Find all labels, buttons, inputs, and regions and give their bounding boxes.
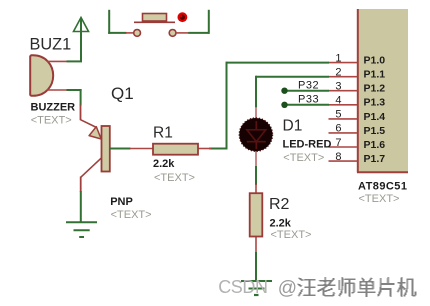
svg-text:P32: P32 — [298, 79, 319, 91]
svg-text:CSDN: CSDN — [218, 277, 267, 297]
svg-text:P1.3: P1.3 — [364, 97, 386, 109]
wire: R1 right to corner — [209, 148, 228, 150]
svg-text:P1.6: P1.6 — [364, 139, 386, 151]
push button contact line — [134, 21, 175, 23]
svg-text:P1.0: P1.0 — [364, 55, 386, 67]
svg-text:3: 3 — [335, 81, 341, 93]
junction dot P33 — [281, 102, 287, 108]
svg-text:6: 6 — [335, 123, 341, 135]
transistor Q1 emitter wire — [81, 105, 97, 128]
wire: pin4 P33 stub — [285, 104, 330, 106]
transistor Q1 collector wire — [81, 158, 102, 192]
button red indicator dot — [178, 12, 188, 22]
push button left pin stub — [126, 32, 134, 34]
pin 7 stub — [329, 146, 358, 148]
push button right pin stub — [176, 32, 189, 34]
svg-text:P33: P33 — [298, 94, 319, 106]
svg-text:4: 4 — [335, 95, 341, 107]
svg-text:<TEXT>: <TEXT> — [111, 209, 152, 221]
ground symbol right — [241, 281, 272, 295]
svg-text:P1.2: P1.2 — [364, 83, 386, 95]
pin 8 stub — [329, 160, 358, 162]
pin 5 stub — [329, 118, 358, 120]
ground symbol left — [66, 222, 97, 237]
chip U1 AT89C51 body — [357, 9, 408, 173]
svg-text:7: 7 — [335, 137, 341, 149]
wire: buzzer top to power — [67, 60, 83, 62]
svg-text:2: 2 — [335, 67, 341, 79]
transistor Q1 emitter arrowhead — [89, 127, 101, 139]
pin 3 stub — [329, 90, 358, 92]
pin 2 stub — [329, 76, 358, 78]
svg-text:<TEXT>: <TEXT> — [271, 229, 312, 241]
svg-text:R1: R1 — [153, 124, 173, 141]
svg-text:1: 1 — [335, 52, 341, 64]
wire: pin2 horizontal — [256, 76, 329, 78]
svg-text:@: @ — [278, 278, 297, 299]
svg-text:P1.5: P1.5 — [364, 125, 386, 137]
wire: pin3 P32 stub — [285, 90, 330, 92]
watermark chinese text 汪老师单片机 (pre-rasterized) — [298, 277, 417, 297]
svg-text:8: 8 — [335, 151, 341, 163]
wire: pin2 vertical down to D1 — [255, 76, 257, 108]
buzzer bottom pin stub — [47, 89, 67, 91]
svg-text:BUZ1: BUZ1 — [30, 35, 72, 53]
push button actuator bar — [143, 14, 167, 22]
push button left terminal — [134, 30, 141, 37]
resistor R2 top stub — [255, 184, 257, 194]
push button frame right wire — [188, 10, 209, 34]
transistor Q1 base bar — [102, 126, 110, 172]
resistor R2 bottom stub — [255, 237, 257, 253]
svg-text:2.2k: 2.2k — [153, 158, 175, 170]
svg-text:BUZZER: BUZZER — [31, 102, 76, 114]
junction dot P32 — [281, 88, 287, 94]
resistor R1 left stub — [130, 148, 153, 150]
LED D1 top pin stub — [255, 107, 257, 122]
pin 4 stub — [329, 104, 358, 106]
resistor R1 body — [153, 144, 198, 155]
pin 1 stub — [329, 62, 358, 64]
svg-text:PNP: PNP — [110, 196, 133, 208]
svg-text:<TEXT>: <TEXT> — [31, 115, 72, 127]
svg-text:P1.7: P1.7 — [364, 153, 386, 165]
svg-text:R2: R2 — [269, 196, 290, 213]
svg-text:2.2k: 2.2k — [270, 218, 292, 230]
svg-text:Q1: Q1 — [111, 84, 134, 103]
push button frame left wire — [108, 10, 126, 34]
power terminal arrow — [74, 18, 89, 62]
buzzer top pin stub — [47, 60, 67, 62]
push button right terminal — [169, 30, 176, 37]
svg-text:P1.1: P1.1 — [364, 69, 386, 81]
svg-text:P1.4: P1.4 — [364, 111, 386, 123]
svg-text:5: 5 — [335, 109, 341, 121]
wire: R2 to ground — [255, 252, 257, 281]
buzzer BUZ1 body — [30, 55, 53, 96]
svg-text:LED-RED: LED-RED — [283, 139, 332, 151]
svg-text:<TEXT>: <TEXT> — [359, 193, 400, 205]
wire: pin1 vertical down to R1 net — [226, 62, 228, 150]
pin 6 stub — [329, 132, 358, 134]
wire: buzzer bottom to emitter — [67, 89, 82, 106]
wire: collector to ground — [80, 191, 82, 222]
LED D1 body — [239, 118, 272, 151]
wire: pin1 horizontal — [227, 62, 330, 64]
svg-text:<TEXT>: <TEXT> — [283, 152, 324, 164]
resistor R1 right stub — [198, 148, 211, 150]
svg-text:AT89C51: AT89C51 — [358, 181, 407, 193]
svg-text:<TEXT>: <TEXT> — [154, 172, 195, 184]
resistor R2 body — [250, 193, 263, 236]
transistor Q1 base wire to R1 — [110, 148, 131, 150]
wire: D1 to R2 — [255, 166, 257, 185]
LED D1 bottom pin stub — [255, 148, 257, 167]
svg-text:D1: D1 — [283, 118, 303, 135]
